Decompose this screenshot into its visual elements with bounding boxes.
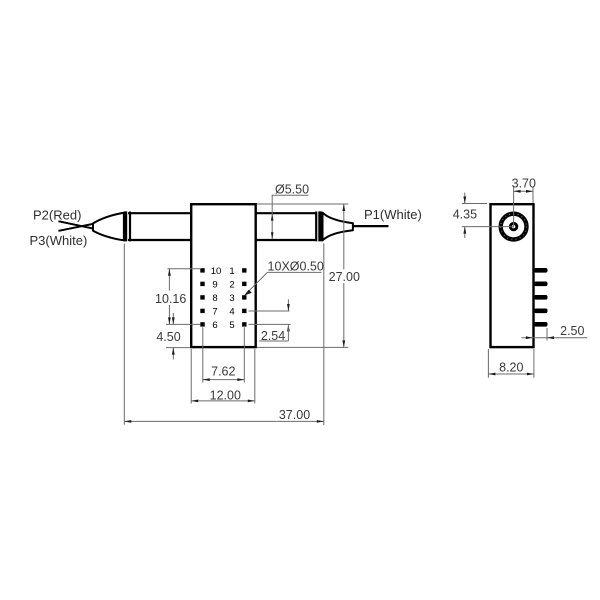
wire: fiber P3 (left, lower label crossing up) — [59, 224, 93, 231]
pin 10 (front, square) — [200, 268, 204, 272]
svg-text:6: 6 — [212, 320, 217, 331]
extension line below body right — [254, 349, 256, 404]
extension line from pin 4 (right) — [249, 310, 290, 312]
main body rectangle — [191, 204, 256, 347]
extension line from pin 10 (left) — [168, 268, 201, 270]
svg-text:10: 10 — [211, 266, 222, 277]
dimension 8.20 line — [488, 373, 534, 375]
extension line from pin 5 (right) — [249, 323, 291, 325]
wire: fiber P1 (right) — [354, 225, 389, 227]
svg-text:1: 1 — [229, 266, 234, 277]
svg-text:12.00: 12.00 — [210, 388, 241, 402]
pin 8 — [200, 295, 204, 299]
svg-text:P3(White): P3(White) — [30, 233, 88, 248]
left fiber cone (boot taper) — [93, 213, 125, 241]
svg-text:2.50: 2.50 — [560, 324, 584, 338]
svg-text:7.62: 7.62 — [211, 365, 235, 379]
dimension 4.50 line — [172, 313, 174, 324]
side pin 1 (tab) — [534, 268, 548, 273]
dimension 3.70 — [532, 187, 534, 203]
leader 10XØ0.50 to pin 3 — [267, 271, 321, 273]
fiber port: center ferrule donut — [510, 223, 516, 229]
svg-text:10.16: 10.16 — [155, 292, 186, 306]
left cylinder (sleeve) — [128, 212, 191, 214]
svg-text:2: 2 — [229, 280, 234, 291]
svg-text:9: 9 — [212, 280, 217, 291]
fiber port: knurled outer ring — [501, 214, 527, 240]
svg-text:7: 7 — [212, 307, 217, 318]
svg-text:Ø5.50: Ø5.50 — [275, 183, 309, 197]
right fiber cone (boot taper) — [323, 213, 353, 241]
right boot inner line — [315, 212, 317, 242]
extension line below pin 6 — [202, 327, 204, 382]
right boot end cap (filled bar, rounded right) — [318, 211, 323, 241]
pin 1 (front, square) — [242, 268, 246, 272]
svg-text:4: 4 — [229, 307, 234, 318]
pin 3 — [242, 295, 246, 299]
side pin 5 — [534, 322, 548, 327]
extension line from body bottom-left — [166, 347, 190, 349]
pin 4 — [242, 309, 246, 313]
centerline horizontal to port center — [462, 226, 513, 228]
extension lines below side body — [487, 349, 489, 378]
extension line below body left — [190, 349, 192, 404]
dimension 7.62 line — [203, 379, 245, 381]
svg-text:P2(Red): P2(Red) — [33, 208, 81, 223]
dimension 12.00 line — [191, 400, 255, 402]
svg-text:4.35: 4.35 — [453, 207, 477, 221]
dimension 4.35 line — [464, 193, 466, 204]
svg-text:4.50: 4.50 — [156, 330, 180, 344]
extension line below right boot — [323, 244, 325, 426]
left boot inner line — [129, 212, 131, 242]
right cylinder (sleeve) — [256, 212, 316, 214]
dimension 37.00 line — [124, 420, 323, 422]
svg-text:8: 8 — [212, 293, 217, 304]
svg-text:8.20: 8.20 — [499, 360, 523, 374]
dimension 27.00 (right of front view) — [257, 203, 348, 205]
extension line below pin 5 — [243, 327, 245, 382]
dimension text 2.54 underline — [259, 340, 288, 342]
side pin 2 — [534, 282, 548, 287]
pin 2 — [242, 282, 246, 286]
svg-text:3.70: 3.70 — [512, 177, 536, 191]
wire: fiber P2 overdraw — [59, 221, 93, 228]
side body rectangle — [491, 204, 534, 347]
dimension Ø5.50 leader — [272, 194, 309, 196]
dimension 10.16 line — [168, 269, 170, 291]
extension line top edge extended left — [462, 203, 487, 205]
svg-text:5: 5 — [229, 320, 234, 331]
side pin 4 — [534, 309, 548, 314]
svg-text:3: 3 — [229, 293, 234, 304]
pin 5 — [242, 322, 246, 326]
extension line from pin 6 (left) — [166, 323, 200, 325]
extension line below left boot — [123, 244, 125, 425]
dimension 2.54 line — [287, 299, 289, 311]
wire: fiber P3 overdraw — [59, 224, 93, 231]
svg-text:27.00: 27.00 — [329, 270, 360, 284]
svg-text:2.54: 2.54 — [261, 329, 285, 343]
pin 9 — [200, 282, 204, 286]
svg-text:10XØ0.50: 10XØ0.50 — [268, 260, 324, 274]
side pin 3 — [534, 295, 548, 300]
dimension 2.50 (pin length) — [546, 328, 548, 341]
centerline vertical to port center — [513, 187, 515, 228]
pin 6 — [200, 322, 204, 326]
wire: fiber P2 (left, upper label crossing down) — [59, 221, 93, 228]
left boot end cap (filled bar, rounded left) — [123, 211, 127, 241]
svg-text:P1(White): P1(White) — [364, 207, 422, 222]
svg-text:37.00: 37.00 — [279, 408, 310, 422]
pin 7 — [200, 309, 204, 313]
